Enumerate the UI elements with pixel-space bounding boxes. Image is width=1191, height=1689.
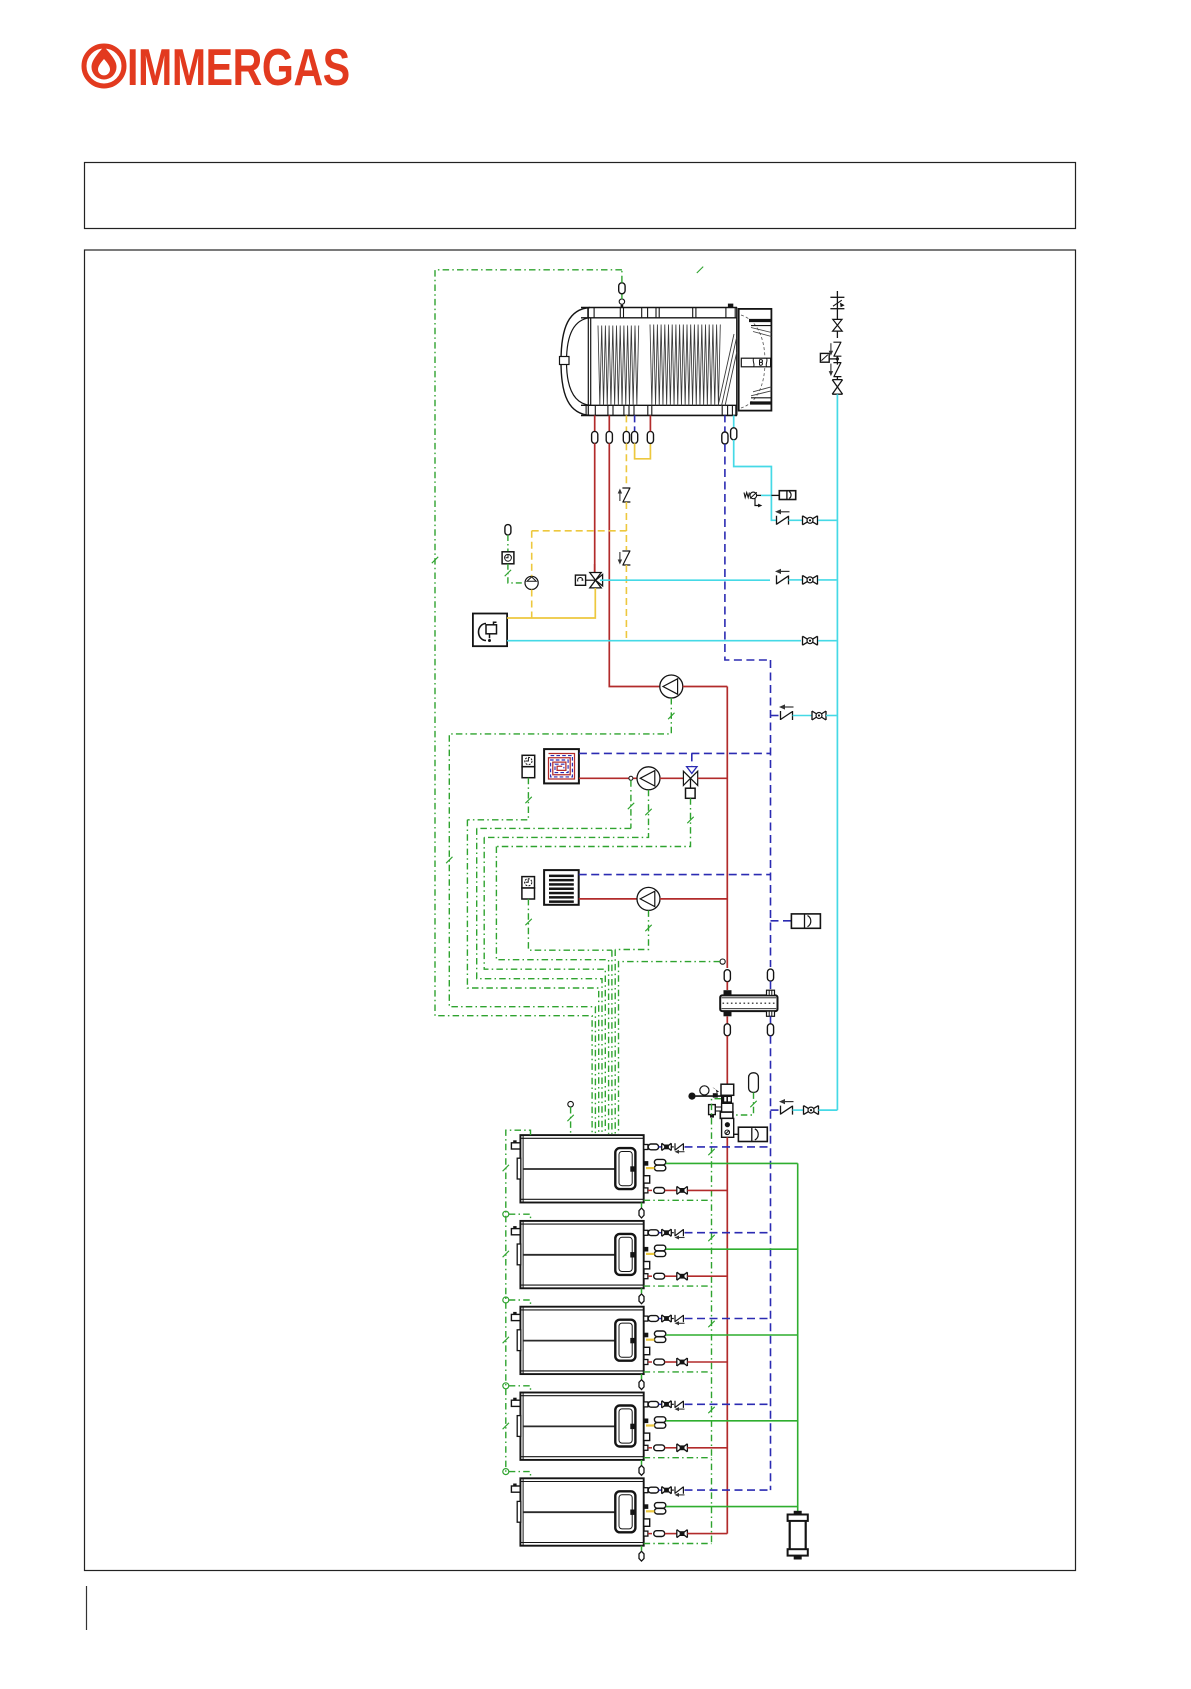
zone1 pipe pump->valve bbox=[660, 777, 683, 779]
floor heating emitter bbox=[544, 749, 579, 783]
boiler 4 flue/drain stub bbox=[639, 1460, 644, 1475]
cascade node boiler 3 bbox=[503, 1297, 531, 1307]
zone1 3-way valve bbox=[683, 753, 697, 788]
boiler 1 flow line bbox=[648, 1186, 727, 1194]
flow check valve down bbox=[622, 551, 630, 565]
tank top sensor pocket bbox=[619, 270, 625, 308]
boiler 2 wiring branch bbox=[644, 1285, 712, 1287]
boiler 1 wiring branch bbox=[644, 1199, 712, 1201]
zone1 flow red bbox=[579, 777, 637, 779]
pressure switch bbox=[709, 1105, 722, 1118]
svg-text:IMMERGAS: IMMERGAS bbox=[127, 38, 350, 96]
zone1 valve wire run bbox=[496, 847, 608, 1134]
flow manifold riser bbox=[726, 687, 728, 969]
manifold sensor wire bbox=[619, 959, 726, 1134]
boiler 2 condensate connection bbox=[654, 1245, 797, 1256]
zone2 flow to manifold bbox=[660, 898, 727, 900]
system fill branch lower bbox=[771, 1099, 804, 1115]
tank loading flow pipe bbox=[606, 415, 660, 686]
tank heating return pipe bbox=[722, 415, 771, 660]
boiler 1 bbox=[511, 1135, 649, 1202]
boiler safety group bbox=[720, 1084, 733, 1137]
title box bbox=[85, 163, 1076, 229]
cold water main down bbox=[836, 394, 838, 1110]
boiler 3 flue/drain stub bbox=[639, 1374, 644, 1389]
return manifold (upper) bbox=[770, 660, 772, 967]
cold water inlet column bbox=[830, 291, 844, 319]
boiler 4 condensate connection bbox=[654, 1417, 797, 1428]
zone1 thermostat wire run bbox=[467, 820, 598, 1134]
zone2 room thermostat bbox=[522, 877, 535, 888]
check valve down 2 bbox=[833, 363, 841, 377]
boiler 1 condensate connection bbox=[654, 1159, 797, 1170]
flow check valve up bbox=[622, 488, 630, 502]
flow sensor junction zone1 bbox=[477, 776, 633, 828]
boiler 1 return line bbox=[648, 1143, 771, 1153]
coil bridge stub B bbox=[647, 415, 653, 443]
zone1 valve actuator bbox=[686, 788, 696, 798]
check valve down 1 bbox=[833, 342, 841, 356]
zone2 thermostat wire run bbox=[611, 950, 613, 1134]
outer control loop wire (tank sensor) bbox=[435, 270, 622, 1134]
boiler 5 wiring branch bbox=[644, 1543, 712, 1545]
DHW line shutoff valve bbox=[803, 575, 818, 584]
zone1 thermostat wire bbox=[467, 778, 528, 820]
mixing valve actuator bbox=[575, 575, 595, 585]
zone1 flow to manifold bbox=[698, 777, 728, 779]
radiator emitter bbox=[544, 870, 579, 905]
tank coil 1 bbox=[598, 326, 639, 406]
boiler 2 flow line bbox=[648, 1272, 727, 1280]
cold water feed to tank bbox=[731, 415, 772, 520]
tank coil 2 bbox=[650, 325, 720, 406]
DHW cold branch valve bbox=[803, 516, 818, 525]
cascade node boiler 5 bbox=[503, 1469, 531, 1479]
heating expansion vessel branch bbox=[771, 914, 821, 928]
recirculation line valve bbox=[803, 636, 818, 645]
IMMERGAS logo bbox=[84, 38, 350, 96]
fitting above separator (return) bbox=[767, 969, 773, 990]
tank right support frame bbox=[739, 309, 772, 411]
heating expansion vessel (capsule) bbox=[734, 1073, 759, 1115]
boiler 5 return line bbox=[648, 1487, 771, 1497]
zone1 valve wire bbox=[496, 798, 690, 846]
bottom expansion vessel bbox=[734, 1127, 768, 1141]
zone2 pump bbox=[637, 887, 660, 910]
zone2 flow red bbox=[579, 898, 637, 900]
flow manifold to boilers bbox=[726, 1137, 728, 1533]
DHW cold branch pipe bbox=[818, 519, 837, 521]
pressure gauge tap bbox=[820, 353, 839, 362]
boiler 4 wiring branch bbox=[644, 1457, 712, 1459]
condensate neutralizer bbox=[788, 1511, 808, 1560]
recirculation sensor pocket bbox=[505, 525, 511, 551]
zone1 room thermostat bbox=[522, 755, 535, 766]
tank dip tube bbox=[718, 334, 737, 406]
zone2 pump wire bbox=[615, 910, 648, 949]
fill valve lower bbox=[804, 1106, 819, 1115]
DHW expansion vessel bbox=[771, 491, 795, 500]
safety group gauge bbox=[688, 1086, 721, 1100]
zone1 pump wire run bbox=[484, 837, 605, 1134]
boiler 2 return line bbox=[648, 1229, 771, 1239]
boiler 5 condensate connection bbox=[654, 1503, 797, 1514]
boiler 3 gas stub bbox=[646, 1339, 654, 1341]
DHW cold branch check valve bbox=[771, 509, 802, 525]
page mark bottom left bbox=[86, 1586, 88, 1630]
boiler 1 flue/drain stub bbox=[639, 1203, 644, 1218]
boiler 3 bbox=[511, 1307, 649, 1374]
zone1 sensor wire run bbox=[477, 828, 602, 1134]
DHW line check valve bbox=[775, 569, 802, 585]
zone2 pump wire run bbox=[614, 950, 616, 1134]
wire break ticks bbox=[432, 267, 757, 1430]
cyan recirculation return line bbox=[507, 640, 801, 642]
boiler 5 flow line bbox=[648, 1530, 727, 1538]
boiler 3 flow line bbox=[648, 1358, 727, 1366]
tank bottom flange ticks bbox=[586, 405, 736, 415]
boiler 5 bbox=[511, 1478, 649, 1545]
zone2 return (blue dashed) bbox=[579, 874, 771, 876]
tank loading pump bbox=[660, 675, 683, 698]
fitting above separator (flow) bbox=[724, 970, 730, 990]
mixed water out (cyan) bbox=[600, 579, 770, 581]
boiler 4 gas stub bbox=[646, 1424, 654, 1426]
wire to recirculation pump bbox=[508, 564, 525, 583]
fitting below separator (return) bbox=[767, 1016, 773, 1490]
fitting below separator (flow) bbox=[724, 1016, 730, 1084]
zone1 return (blue dashed) bbox=[579, 752, 771, 754]
cascade node boiler 4 bbox=[503, 1383, 531, 1393]
cascade node boiler 2 bbox=[503, 1211, 531, 1221]
cascade bus wire bbox=[506, 1130, 531, 1472]
DHW line to main bbox=[818, 579, 837, 581]
boiler 3 return line bbox=[648, 1315, 771, 1325]
zone2 thermostat wire bbox=[528, 899, 612, 950]
boiler 2 bbox=[511, 1221, 649, 1288]
diagram frame bbox=[85, 250, 1076, 1571]
pump1 outlet to flow manifold bbox=[683, 686, 728, 688]
recirculation thermostat bbox=[502, 552, 514, 564]
DHW 3-way mixing valve bbox=[590, 564, 603, 588]
yellow supply from control box bbox=[507, 588, 595, 618]
condensate manifold bbox=[797, 1163, 799, 1515]
boiler 5 flue/drain stub bbox=[639, 1546, 644, 1561]
boiler 1 gas stub bbox=[646, 1167, 654, 1169]
pump1 wire bbox=[449, 698, 671, 1134]
safety relief valve bbox=[833, 319, 843, 331]
tank top flange ticks bbox=[588, 304, 735, 318]
boiler 2 flue/drain stub bbox=[639, 1288, 644, 1303]
green wire from safety block down bbox=[712, 1099, 722, 1544]
control station box bbox=[473, 614, 507, 647]
storage tank body bbox=[560, 308, 738, 416]
recirculation pipe from tank (dashed yellow) bbox=[623, 415, 629, 485]
boiler 2 gas stub bbox=[646, 1253, 654, 1255]
zone1 pump bbox=[637, 767, 660, 790]
fill line to cold main bbox=[819, 1109, 838, 1111]
coil bridge U pipe bbox=[635, 443, 651, 459]
recirculation riser (dashed yellow) bbox=[532, 531, 627, 618]
recirculation pump bbox=[525, 576, 538, 589]
system fill branch upper bbox=[771, 704, 813, 720]
zone1 pump wire bbox=[484, 790, 648, 838]
main shutoff valve bbox=[832, 380, 842, 395]
boiler 4 bbox=[511, 1393, 649, 1460]
DHW hot supply pipe from tank bbox=[592, 415, 598, 572]
drain cock W bbox=[744, 492, 771, 507]
boiler 4 return line bbox=[648, 1401, 771, 1411]
outdoor sensor wire bbox=[568, 1101, 574, 1134]
boiler 3 condensate connection bbox=[654, 1331, 797, 1342]
coil bridge stub A bbox=[632, 415, 638, 443]
boiler 4 flow line bbox=[648, 1444, 727, 1452]
fill valve upper bbox=[812, 711, 826, 720]
hydraulic separator bbox=[720, 990, 777, 1016]
boiler 5 gas stub bbox=[646, 1510, 654, 1512]
boiler 3 wiring branch bbox=[644, 1371, 712, 1373]
